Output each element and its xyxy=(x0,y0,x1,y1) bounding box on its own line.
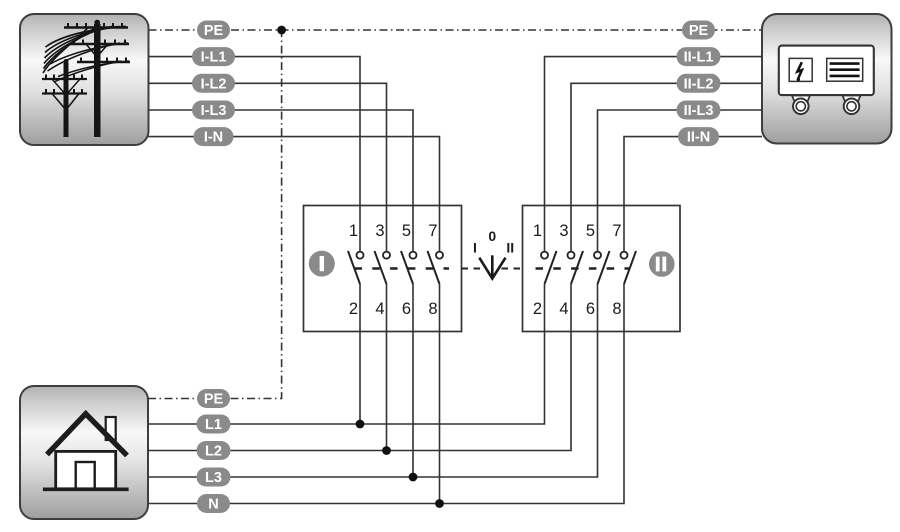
switch I contact 5-6 xyxy=(401,251,417,284)
switch II linkage (dashed) xyxy=(536,267,631,269)
utility-grid source icon box xyxy=(20,14,149,145)
svg-text:6: 6 xyxy=(586,300,595,318)
svg-text:L3: L3 xyxy=(205,470,222,486)
svg-text:7: 7 xyxy=(612,222,621,240)
svg-text:L1: L1 xyxy=(205,417,222,433)
wire switch I pole4 bottom xyxy=(439,284,441,504)
wire II-L1 xyxy=(545,57,763,252)
label pill L1 xyxy=(197,415,231,434)
wire I-L3 xyxy=(149,110,414,252)
switch I contact 1-2 xyxy=(348,251,364,284)
switch II enclosure xyxy=(523,206,681,332)
label pill I-L3 xyxy=(192,101,235,120)
switch II contact 3-4 xyxy=(568,251,584,284)
selector lever xyxy=(479,255,505,278)
wire I-L2 xyxy=(149,83,387,251)
svg-text:5: 5 xyxy=(586,222,595,240)
label pill I-L1 xyxy=(192,47,235,66)
svg-text:I-L1: I-L1 xyxy=(201,50,227,66)
svg-text:7: 7 xyxy=(428,222,437,240)
label pill PE top-right xyxy=(682,21,715,40)
junction dot PE xyxy=(277,26,286,35)
svg-text:I-N: I-N xyxy=(204,130,223,146)
wire PE bottom riser (dash-dot) xyxy=(148,30,282,399)
label pill II-N xyxy=(678,127,719,146)
svg-text:I-L2: I-L2 xyxy=(201,76,227,92)
junction dot L2 xyxy=(382,446,391,455)
generator artwork xyxy=(779,46,874,115)
switch I contact 3-4 xyxy=(375,251,391,284)
svg-text:4: 4 xyxy=(375,300,384,318)
selector position labels I 0 II xyxy=(473,228,514,256)
wire N xyxy=(148,284,624,504)
wire L1 xyxy=(148,284,545,424)
junction dot L1 xyxy=(356,420,365,429)
label pill PE top-left xyxy=(197,21,230,40)
label pill PE bottom xyxy=(197,389,230,408)
svg-text:II-L1: II-L1 xyxy=(684,50,714,66)
house load icon box xyxy=(20,386,148,519)
label pill L2 xyxy=(197,441,231,460)
wire switch I pole1 bottom xyxy=(359,284,361,424)
switch I enclosure xyxy=(304,206,462,332)
switch II contact 1-2 xyxy=(541,251,557,284)
wire II-L2 xyxy=(571,83,762,251)
wire switch I pole2 bottom xyxy=(386,284,388,451)
svg-text:2: 2 xyxy=(349,300,358,318)
wire PE top (dash-dot) xyxy=(149,29,763,31)
svg-text:4: 4 xyxy=(559,300,568,318)
switch II badge xyxy=(649,251,675,277)
wire I-N xyxy=(149,137,440,252)
label pill I-L2 xyxy=(192,74,235,93)
svg-text:I: I xyxy=(473,240,477,256)
wire L2 xyxy=(148,284,571,451)
svg-text:PE: PE xyxy=(204,392,224,408)
svg-text:PE: PE xyxy=(689,23,709,39)
svg-text:II: II xyxy=(506,240,514,256)
svg-text:II-N: II-N xyxy=(687,130,710,146)
svg-text:6: 6 xyxy=(402,300,411,318)
label pill I-N xyxy=(194,127,234,146)
wire switch I pole3 bottom xyxy=(412,284,414,477)
svg-text:1: 1 xyxy=(349,222,358,240)
svg-text:0: 0 xyxy=(488,228,496,244)
switch I pin numbers top 1 3 5 7 xyxy=(349,222,438,240)
utility pole artwork xyxy=(42,20,130,137)
switch II pin numbers bottom 2 4 6 8 xyxy=(533,300,622,318)
house artwork xyxy=(43,414,129,490)
junction dot N xyxy=(435,499,444,508)
selector linkage dashes xyxy=(462,268,523,270)
switch I linkage (dashed) xyxy=(355,267,450,269)
label pill II-L3 xyxy=(677,101,721,120)
switch II pin numbers top 1 3 5 7 xyxy=(533,222,622,240)
wire I-L1 xyxy=(149,57,361,252)
wire II-L3 xyxy=(598,110,763,252)
label pill N xyxy=(197,494,230,513)
svg-text:L2: L2 xyxy=(205,444,222,460)
switch I contact 7-8 xyxy=(428,251,444,284)
svg-text:I-L3: I-L3 xyxy=(201,103,227,119)
junction dot L3 xyxy=(409,473,418,482)
label pill II-L2 xyxy=(677,74,721,93)
svg-text:3: 3 xyxy=(559,222,568,240)
wire L3 xyxy=(148,284,598,477)
generator icon box xyxy=(762,14,892,144)
svg-text:8: 8 xyxy=(612,300,621,318)
svg-text:II-L3: II-L3 xyxy=(684,103,714,119)
svg-text:8: 8 xyxy=(428,300,437,318)
switch II contact 7-8 xyxy=(621,251,637,284)
svg-text:1: 1 xyxy=(533,222,542,240)
label pill L3 xyxy=(197,468,231,487)
switch I badge xyxy=(309,251,335,277)
svg-text:3: 3 xyxy=(375,222,384,240)
switch I pin numbers bottom 2 4 6 8 xyxy=(349,300,438,318)
switch II contact 5-6 xyxy=(594,251,610,284)
svg-text:PE: PE xyxy=(204,23,224,39)
svg-text:II-L2: II-L2 xyxy=(684,76,714,92)
label pill II-L1 xyxy=(677,47,721,66)
svg-text:2: 2 xyxy=(533,300,542,318)
wire II-N xyxy=(624,137,762,252)
svg-text:5: 5 xyxy=(402,222,411,240)
svg-text:N: N xyxy=(208,497,218,513)
